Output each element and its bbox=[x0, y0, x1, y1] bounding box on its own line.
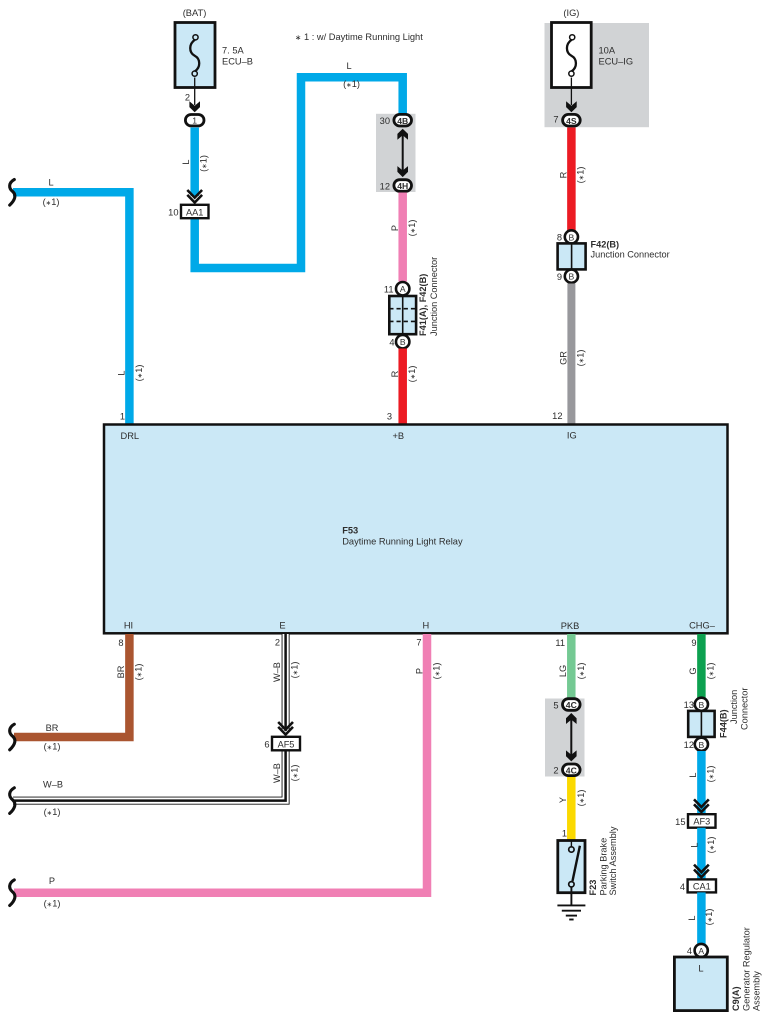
svg-text:Switch Assembly: Switch Assembly bbox=[608, 826, 618, 895]
label P (*1) bbox=[390, 220, 417, 237]
svg-text:6: 6 bbox=[264, 739, 269, 749]
svg-text:(∗1): (∗1) bbox=[290, 662, 300, 679]
svg-text:4: 4 bbox=[389, 338, 394, 348]
label L (*1) on BAT branch bbox=[181, 155, 209, 172]
svg-text:(∗1): (∗1) bbox=[44, 742, 61, 752]
wire GR from 9 B to IG pin 12 bbox=[567, 284, 575, 425]
svg-text:4: 4 bbox=[687, 946, 692, 956]
svg-text:P: P bbox=[390, 225, 400, 231]
svg-text:15: 15 bbox=[675, 817, 685, 827]
svg-text:(∗1): (∗1) bbox=[706, 766, 716, 783]
junction connector F41(A) F42(B) grid bbox=[389, 296, 416, 334]
svg-text:9: 9 bbox=[557, 272, 562, 282]
svg-text:4B: 4B bbox=[397, 116, 408, 126]
chevron into AF3 bbox=[694, 799, 709, 812]
svg-text:Daytime Running Light Relay: Daytime Running Light Relay bbox=[342, 537, 463, 547]
terminal circle 8 B bbox=[557, 230, 578, 243]
wire P from 4H to junction A bbox=[398, 193, 407, 282]
svg-text:F41(A), F42(B): F41(A), F42(B) bbox=[418, 274, 428, 336]
svg-text:B: B bbox=[400, 337, 406, 347]
svg-text:Connector: Connector bbox=[740, 688, 750, 730]
label W-B (*1) above AF5 bbox=[272, 662, 300, 682]
svg-text:11: 11 bbox=[555, 638, 565, 648]
terminal circle 9 B bbox=[557, 270, 578, 283]
label L (*1) above terminal A bbox=[687, 909, 714, 926]
double headed arrow 4C-4C bbox=[566, 713, 577, 761]
svg-text:4H: 4H bbox=[397, 181, 408, 191]
label F42(B) Junction Connector bbox=[591, 239, 670, 259]
svg-text:P: P bbox=[415, 668, 425, 674]
svg-text:(∗1): (∗1) bbox=[44, 899, 61, 909]
connector oval 12 4H bbox=[380, 180, 412, 192]
label L (*1) near left squiggle bbox=[43, 178, 60, 208]
svg-text:7: 7 bbox=[416, 638, 421, 648]
svg-text:(∗1): (∗1) bbox=[706, 663, 716, 680]
svg-text:B: B bbox=[699, 700, 705, 710]
generator regulator assembly C9(A) bbox=[674, 957, 727, 1011]
svg-text:L: L bbox=[687, 915, 697, 920]
svg-text:Generator Regulator: Generator Regulator bbox=[742, 927, 752, 1011]
wire G from CHG- pin 9 to 13 B bbox=[697, 634, 706, 698]
svg-text:3: 3 bbox=[387, 412, 392, 422]
svg-text:7. 5A: 7. 5A bbox=[222, 46, 245, 56]
svg-text:BR: BR bbox=[116, 665, 126, 678]
label L (*1) above AF3 bbox=[688, 766, 716, 783]
svg-text:13: 13 bbox=[684, 700, 694, 710]
label L (*1) on top horizontal run bbox=[343, 61, 360, 89]
connector oval 30 4B bbox=[380, 114, 412, 126]
wire Y from 4C to parking brake switch bbox=[567, 777, 576, 841]
svg-text:R: R bbox=[390, 370, 400, 377]
squiggle left end of P wire bbox=[10, 880, 15, 906]
label L (*1) between AF3 and CA1 bbox=[690, 837, 717, 854]
terminal circle 4 A bbox=[687, 944, 708, 957]
gray shield box IG fuse block bbox=[545, 23, 650, 127]
label Y (*1) bbox=[558, 790, 586, 807]
wire L from terminal 1 to AA1 bbox=[190, 128, 199, 197]
svg-text:Parking Brake: Parking Brake bbox=[598, 838, 608, 896]
terminal oval 4S bbox=[563, 114, 581, 126]
svg-text:(∗1): (∗1) bbox=[199, 155, 209, 172]
svg-text:AA1: AA1 bbox=[186, 207, 203, 217]
svg-text:11: 11 bbox=[384, 285, 394, 295]
svg-text:HI: HI bbox=[124, 621, 133, 631]
terminal circle 12 B bbox=[684, 738, 708, 751]
svg-text:(∗1): (∗1) bbox=[343, 79, 360, 89]
svg-text:(∗1): (∗1) bbox=[44, 807, 61, 817]
terminal circle 13 B bbox=[684, 698, 708, 711]
terminal circle 4 B bbox=[389, 335, 409, 348]
svg-text:B: B bbox=[699, 740, 705, 750]
wire L from CA1 to terminal A bbox=[697, 892, 706, 944]
svg-text:1: 1 bbox=[562, 829, 567, 839]
svg-text:C9(A): C9(A) bbox=[731, 987, 741, 1012]
svg-text:H: H bbox=[422, 621, 429, 631]
svg-text:A: A bbox=[400, 284, 406, 294]
chevron into AA1 bbox=[187, 190, 202, 203]
label C9(A) Generator Regulator Assembly (rotated) bbox=[731, 927, 762, 1011]
label W-B (*1) below AF5 bbox=[272, 763, 300, 783]
connector oval 5 4C bbox=[553, 699, 580, 711]
label P (*1) on horizontal bbox=[44, 876, 61, 909]
squiggle left end of W-B wire bbox=[10, 788, 15, 814]
wire W-B from E pin 2 through AF5 to left squiggle bbox=[13, 634, 286, 801]
svg-text:9: 9 bbox=[691, 638, 696, 648]
wire LG from PKB pin 11 to 4C bbox=[567, 634, 576, 699]
svg-text:(∗1): (∗1) bbox=[576, 350, 586, 367]
junction connector F42(B) bbox=[558, 243, 586, 269]
svg-text:30: 30 bbox=[380, 116, 390, 126]
svg-text:AF5: AF5 bbox=[278, 739, 295, 749]
label F41(A), F42(B) Junction Connector (rotated) bbox=[418, 257, 439, 336]
svg-text:(∗1): (∗1) bbox=[706, 837, 716, 854]
svg-text:BR: BR bbox=[46, 723, 59, 733]
svg-text:∗ 1 : w/ Daytime Running Light: ∗ 1 : w/ Daytime Running Light bbox=[295, 32, 423, 42]
svg-text:L: L bbox=[690, 842, 700, 847]
wire BR from HI pin 8 to left squiggle bbox=[14, 634, 129, 737]
svg-text:Y: Y bbox=[558, 797, 568, 803]
label F44(B) Junction Connector (rotated) bbox=[719, 688, 750, 738]
svg-text:(IG): (IG) bbox=[563, 8, 579, 18]
svg-text:4S: 4S bbox=[566, 116, 577, 126]
svg-text:Junction: Junction bbox=[729, 690, 739, 724]
svg-text:B: B bbox=[569, 232, 575, 242]
label GR (*1) bbox=[559, 350, 586, 367]
svg-text:IG: IG bbox=[567, 431, 577, 441]
label R (*1) on +B drop bbox=[390, 366, 417, 383]
svg-text:F42(B): F42(B) bbox=[591, 239, 620, 249]
terminal oval 1 bbox=[185, 115, 204, 126]
wire L from 12 B to AF3 bbox=[697, 751, 706, 814]
svg-text:CA1: CA1 bbox=[693, 882, 711, 892]
svg-text:DRL: DRL bbox=[121, 431, 140, 441]
svg-text:G: G bbox=[688, 667, 698, 674]
connector oval 2 4C bbox=[553, 764, 580, 776]
connector AA1 bbox=[168, 205, 208, 218]
wire L from AF3 to CA1 bbox=[697, 828, 706, 879]
svg-text:GR: GR bbox=[559, 351, 569, 365]
svg-text:+B: +B bbox=[392, 431, 404, 441]
junction connector F44(B) bbox=[688, 711, 714, 737]
svg-text:PKB: PKB bbox=[561, 621, 580, 631]
wire P from H pin 7 to left squiggle bbox=[14, 634, 427, 893]
fuse ECU-B (BAT) bbox=[175, 8, 253, 88]
svg-text:(BAT): (BAT) bbox=[183, 8, 207, 18]
svg-text:F23: F23 bbox=[588, 880, 598, 896]
svg-text:W–B: W–B bbox=[272, 662, 282, 682]
svg-text:ECU–IG: ECU–IG bbox=[599, 57, 634, 67]
svg-text:8: 8 bbox=[557, 233, 562, 243]
svg-text:5: 5 bbox=[553, 700, 558, 710]
svg-text:F53: F53 bbox=[342, 526, 358, 536]
svg-text:2: 2 bbox=[553, 766, 558, 776]
label L (*1) on DRL drop bbox=[117, 365, 145, 382]
svg-text:(∗1): (∗1) bbox=[134, 664, 144, 681]
svg-text:12: 12 bbox=[684, 740, 694, 750]
svg-text:1: 1 bbox=[120, 412, 125, 422]
svg-text:L: L bbox=[698, 964, 703, 974]
parking brake switch F23 bbox=[558, 841, 585, 893]
svg-text:L: L bbox=[48, 178, 53, 188]
svg-text:B: B bbox=[569, 272, 575, 282]
wire L from left squiggle to DRL pin 1 bbox=[13, 192, 129, 424]
squiggle left end of BR wire bbox=[10, 724, 15, 750]
connector AF5 bbox=[264, 737, 300, 751]
svg-text:ECU–B: ECU–B bbox=[222, 57, 253, 67]
label R (*1) on IG branch bbox=[559, 167, 586, 184]
svg-text:2: 2 bbox=[275, 638, 280, 648]
svg-text:(∗1): (∗1) bbox=[290, 765, 300, 782]
wire R from 4S to F42(B) bbox=[567, 128, 576, 231]
svg-text:8: 8 bbox=[118, 638, 123, 648]
squiggle left end of L wire bbox=[10, 180, 15, 206]
svg-text:L: L bbox=[181, 159, 191, 164]
relay F53 Daytime Running Light Relay bbox=[104, 425, 728, 634]
label F23 Parking Brake Switch Assembly (rotated) bbox=[588, 826, 618, 895]
wire pin7 to terminal 4S bbox=[553, 78, 576, 125]
svg-text:F44(B): F44(B) bbox=[719, 709, 729, 738]
ground bbox=[557, 887, 585, 920]
terminal circle 11 A bbox=[384, 282, 410, 295]
svg-text:12: 12 bbox=[380, 181, 390, 191]
svg-text:Junction Connector: Junction Connector bbox=[429, 257, 439, 336]
svg-text:L: L bbox=[117, 370, 127, 375]
label LG (*1) bbox=[558, 663, 586, 680]
fuse ECU-IG (IG) bbox=[552, 8, 634, 88]
svg-text:CHG–: CHG– bbox=[689, 621, 716, 631]
svg-text:(∗1): (∗1) bbox=[432, 663, 442, 680]
svg-text:(∗1): (∗1) bbox=[43, 197, 60, 207]
svg-text:(∗1): (∗1) bbox=[576, 167, 586, 184]
chevron into AF5 bbox=[278, 722, 293, 735]
svg-text:(∗1): (∗1) bbox=[407, 220, 417, 237]
svg-text:10: 10 bbox=[168, 207, 178, 217]
svg-text:Assembly: Assembly bbox=[752, 971, 762, 1011]
label G (*1) bbox=[688, 663, 716, 680]
svg-text:L: L bbox=[688, 772, 698, 777]
svg-text:2: 2 bbox=[185, 93, 190, 103]
svg-text:(∗1): (∗1) bbox=[704, 909, 714, 926]
wire L from AA1 to connector 4B (blue S path) bbox=[195, 77, 403, 268]
double headed arrow 4B-4H bbox=[397, 129, 408, 177]
gray shield box for 4B/4H bbox=[376, 114, 416, 192]
wire R from B to +B pin 3 bbox=[398, 349, 407, 425]
svg-text:12: 12 bbox=[552, 411, 562, 421]
svg-text:L: L bbox=[346, 61, 351, 71]
svg-text:7: 7 bbox=[553, 115, 558, 125]
svg-text:E: E bbox=[279, 621, 285, 631]
svg-text:(∗1): (∗1) bbox=[576, 663, 586, 680]
gray shield box for 4C/4C bbox=[545, 699, 585, 777]
wire pin2 to terminal 1 bbox=[185, 78, 200, 113]
chevron into CA1 bbox=[694, 865, 709, 878]
svg-text:10A: 10A bbox=[599, 46, 616, 56]
svg-text:Junction Connector: Junction Connector bbox=[591, 249, 670, 259]
svg-text:A: A bbox=[698, 946, 704, 956]
svg-text:AF3: AF3 bbox=[693, 817, 710, 827]
label BR (*1) on vertical bbox=[116, 664, 144, 681]
svg-text:4C: 4C bbox=[566, 700, 577, 710]
label W-B (*1) on horizontal bbox=[43, 780, 63, 818]
svg-text:W–B: W–B bbox=[272, 763, 282, 783]
svg-text:4: 4 bbox=[680, 882, 685, 892]
svg-text:LG: LG bbox=[558, 665, 568, 677]
svg-text:W–B: W–B bbox=[43, 780, 63, 790]
connector AF3 bbox=[675, 814, 715, 828]
svg-text:R: R bbox=[559, 171, 569, 178]
label BR (*1) on horizontal bbox=[44, 723, 61, 752]
svg-text:P: P bbox=[49, 876, 55, 886]
svg-text:(∗1): (∗1) bbox=[407, 366, 417, 383]
label P (*1) on vertical bbox=[415, 663, 442, 680]
svg-text:1: 1 bbox=[192, 116, 197, 126]
svg-text:4C: 4C bbox=[566, 765, 577, 775]
svg-text:(∗1): (∗1) bbox=[134, 365, 144, 382]
connector CA1 bbox=[680, 879, 716, 892]
svg-text:(∗1): (∗1) bbox=[576, 790, 586, 807]
